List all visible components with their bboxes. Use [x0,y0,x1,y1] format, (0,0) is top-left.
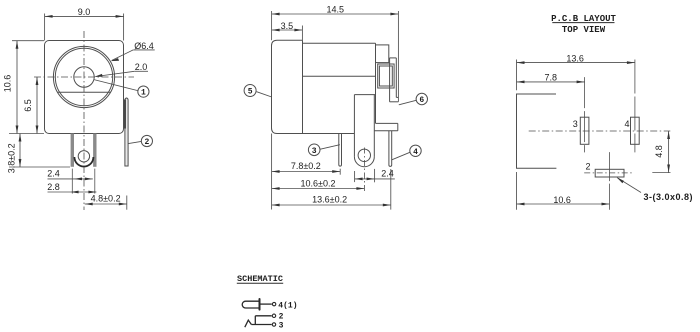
schematic terminal 2 line [255,315,271,317]
center pin hole circle [74,67,94,87]
svg-text:4.8: 4.8 [654,145,664,158]
vertical centerline front view [83,31,85,210]
front right pin [93,134,96,167]
svg-text:3.8±0.2: 3.8±0.2 [6,143,16,173]
dim 2.8 front [48,191,97,193]
svg-text:3: 3 [573,119,578,129]
svg-text:1: 1 [141,89,146,98]
pcb centerline horizontal [529,130,671,132]
svg-text:5: 5 [248,88,253,97]
svg-text:4(1): 4(1) [278,301,297,310]
svg-text:P.C.B LAYOUT: P.C.B LAYOUT [551,14,616,24]
pad 4 centerline [634,60,636,153]
internal line [303,75,376,77]
dim 2.4 side [355,169,395,182]
svg-text:13.6±0.2: 13.6±0.2 [312,195,347,205]
label circle 5 [244,85,256,97]
svg-text:13.6: 13.6 [566,53,584,63]
schematic terminal 4 circle [272,302,275,305]
dim 4.8 pcb [668,131,670,173]
side view flange [272,40,303,133]
dim 10.6 pcb [517,172,610,210]
leader dia 6.4 [112,50,155,61]
svg-text:2: 2 [585,161,590,171]
svg-text:2.0: 2.0 [135,62,148,72]
svg-text:2: 2 [144,138,149,147]
side flat pin front view [125,98,128,166]
center pin hole side view [358,149,370,161]
svg-text:3: 3 [312,147,317,156]
contact strip [390,57,397,59]
svg-text:2: 2 [279,313,284,322]
svg-text:6: 6 [419,96,424,105]
pin 3 [339,134,342,167]
schematic switch [254,316,256,325]
side view center pin centerline [363,148,365,192]
pad 3 centerline [584,77,586,152]
svg-text:3: 3 [279,322,284,331]
dim 3.8±0.2 [9,134,70,168]
svg-text:10.6: 10.6 [2,75,12,93]
leader pad slot [618,178,642,193]
svg-text:2.4: 2.4 [381,169,394,179]
leader 2.0 [96,71,149,76]
svg-text:SCHEMATIC: SCHEMATIC [237,274,283,284]
schematic terminal 3 circle [272,323,275,326]
center terminal arc [74,157,93,167]
dim 13.6±0.2 [272,169,391,210]
svg-text:10.6: 10.6 [553,195,571,205]
upper rear block [376,45,389,63]
label circle 6 [416,93,427,104]
dim 4.8±0.2 [85,196,127,210]
dim 7.8 pcb [517,81,585,83]
svg-text:4.8±0.2: 4.8±0.2 [91,193,121,203]
svg-text:2.4: 2.4 [47,169,60,179]
svg-text:TOP VIEW: TOP VIEW [562,25,606,35]
dim 2.4 front [48,178,93,180]
svg-text:14.5: 14.5 [327,4,345,14]
label circle 2 [141,135,152,146]
pad 3 [580,117,589,144]
dim 14.5 [272,11,399,102]
pad 2 horizontal centerline [584,172,633,174]
svg-text:7.8: 7.8 [544,72,557,82]
dim 10.6 left [9,41,44,134]
pcb board outline [517,94,557,168]
chord line [58,91,111,93]
pcb title underline [552,22,614,24]
svg-text:2.8: 2.8 [47,182,60,192]
center pin terminal side view [354,94,375,96]
dim 3.5 [272,26,303,41]
svg-text:9.0: 9.0 [78,7,91,17]
switch box outer [378,64,394,88]
label circle 4 [410,145,421,156]
rear bottom bar [376,122,398,124]
svg-text:4: 4 [624,119,629,129]
horizontal centerline front view [34,76,134,78]
svg-text:6.5: 6.5 [23,99,33,112]
dim 6.5 [36,77,38,134]
schematic title underline [237,282,283,284]
dim 9.0 [45,14,124,41]
front left pin [71,134,74,167]
svg-text:3.5: 3.5 [281,21,294,31]
switch box inner [379,66,392,86]
svg-text:10.6±0.2: 10.6±0.2 [301,178,336,188]
schematic center pin symbol [242,301,259,308]
dim 13.6 pcb [517,60,635,91]
pad 2 [595,169,624,177]
label circle 3 [308,144,320,156]
center terminal circle [78,151,89,162]
pad 4 [631,117,640,144]
pin extension lines [71,169,73,194]
pad 2 centerline [609,152,611,210]
svg-text:Ø6.4: Ø6.4 [134,41,154,51]
dim 10.6±0.2 [272,188,365,190]
svg-text:4: 4 [413,148,418,157]
label circle 1 [138,86,149,97]
barrel inner circle [55,48,112,105]
barrel outer circle [53,46,114,107]
side view main body [303,42,376,44]
front view body [45,41,124,134]
svg-text:3-(3.0x0.8): 3-(3.0x0.8) [644,192,694,202]
pin 4 [389,131,392,167]
dim 7.8±0.2 [272,134,341,210]
svg-text:7.8±0.2: 7.8±0.2 [291,161,321,171]
